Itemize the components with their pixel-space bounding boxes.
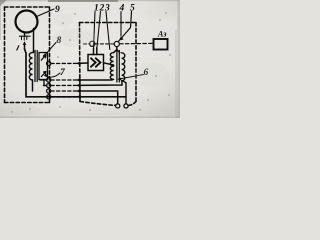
armature arrow xyxy=(24,43,26,49)
interrupter contact teeth xyxy=(22,37,27,40)
svg-text:Аз: Аз xyxy=(157,30,166,39)
wire: terminal b to T2 lower winding xyxy=(40,79,47,81)
wire: terminal e dashed run xyxy=(51,96,78,98)
leader line to label 8 xyxy=(44,43,57,57)
svg-text:2: 2 xyxy=(99,4,105,14)
line terminal 1 xyxy=(116,104,120,108)
junction J4 xyxy=(78,90,81,93)
svg-text:1: 1 xyxy=(94,4,99,14)
tap mark (pointer of label 8) xyxy=(41,55,46,60)
svg-text:9: 9 xyxy=(55,5,60,15)
transformer T2 core xyxy=(116,51,118,83)
transformer T1 secondary winding (item 8/7) xyxy=(39,53,48,80)
wire: arrester to T2 windings xyxy=(104,63,114,65)
wire: bell to winding top xyxy=(33,29,35,53)
enclosure box 2 (right telephone set, dashed) xyxy=(80,23,137,106)
bell stem xyxy=(24,32,26,36)
svg-text:5: 5 xyxy=(130,4,135,14)
wire: armature to bottom rail and line terminal xyxy=(25,49,127,97)
leader line from label 2 xyxy=(97,12,101,50)
junction J3 xyxy=(78,84,81,87)
tap mark (pointer of label 7) xyxy=(41,72,46,77)
transformer T2 right winding (item 6) xyxy=(122,53,125,81)
arrester U1 (box with chevrons, item 2) xyxy=(88,55,104,71)
line unit box A3 xyxy=(154,39,168,50)
leader line from label 4 xyxy=(120,12,122,37)
stray tick mark xyxy=(17,46,19,50)
leader line to label 9 xyxy=(36,9,55,17)
terminal T1-a xyxy=(47,61,51,65)
transformer T1 primary winding xyxy=(29,53,32,81)
terminal B (switch pivot) xyxy=(114,41,119,46)
wire: arrester top stubs xyxy=(93,49,95,55)
switch S1 blade arrowhead xyxy=(119,36,124,40)
leader line to label 7 xyxy=(45,73,60,77)
leader line to label 6 xyxy=(119,75,144,80)
wire: B fork to T2 winding tops xyxy=(114,47,120,53)
terminal T1-e xyxy=(47,95,51,99)
switch S1 blade with leader from label 5 xyxy=(118,12,131,42)
terminal T1-c xyxy=(47,83,51,87)
terminal T1-d xyxy=(47,89,51,93)
wire: T2 right winding to line terminal 2 xyxy=(122,80,126,103)
wire: terminal c to T2 right winding xyxy=(44,85,47,87)
line terminal 2 xyxy=(124,104,128,108)
interrupter contact bar xyxy=(20,35,31,37)
terminal A (item 1) xyxy=(90,41,95,46)
bell gong (item 9) xyxy=(16,11,38,33)
enclosure box 1 (left telephone set, dashed) xyxy=(5,7,51,103)
transformer T2 left windings (stacked) xyxy=(110,53,113,66)
svg-text:4: 4 xyxy=(119,4,125,14)
wire: dashed link A-B and to line unit xyxy=(84,43,90,45)
leader line from label 1 xyxy=(94,12,96,51)
junction J2 xyxy=(78,79,81,82)
leader line from label 3 xyxy=(106,12,110,50)
transformer T1 core xyxy=(34,51,36,82)
wire: terminal d to line terminal 1 xyxy=(51,90,78,92)
terminal T1-b xyxy=(47,78,51,82)
wire: terminal a to arrester (dashed run) xyxy=(46,63,49,65)
junction J1 xyxy=(78,62,81,65)
junction J5 xyxy=(78,95,81,98)
wire: T1 primary to row d xyxy=(32,80,34,91)
svg-text:3: 3 xyxy=(104,4,110,14)
